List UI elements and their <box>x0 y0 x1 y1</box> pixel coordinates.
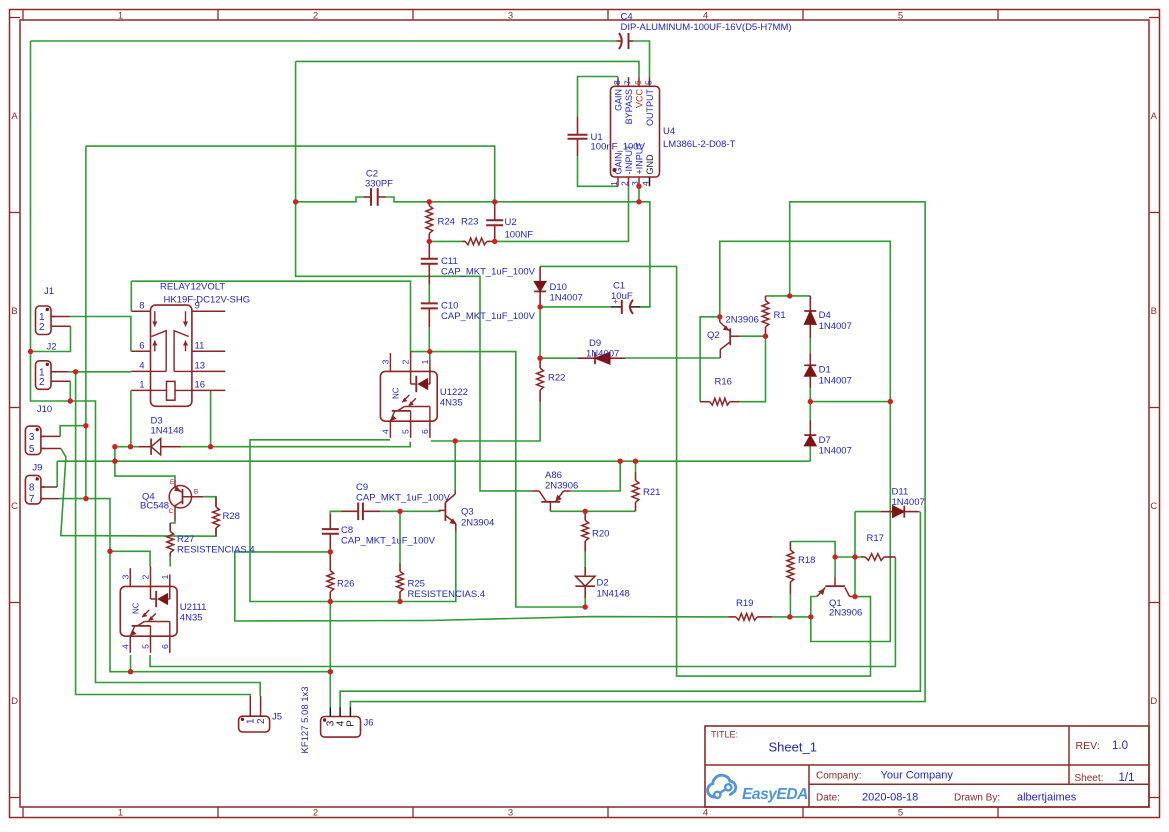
diode D10 1N4007 <box>539 266 541 281</box>
svg-text:J2: J2 <box>47 341 57 352</box>
svg-text:D4: D4 <box>819 310 831 321</box>
junction <box>28 349 33 354</box>
svg-text:8: 8 <box>29 483 35 494</box>
svg-text:1: 1 <box>420 359 430 364</box>
junction <box>208 444 213 449</box>
svg-text:R20: R20 <box>592 529 609 540</box>
wire D4 D1 column gap <box>809 296 811 311</box>
wire A86 base row <box>550 510 635 512</box>
svg-text:+INPUT: +INPUT <box>635 142 645 175</box>
transistor Q4 BC548 <box>169 486 191 508</box>
wire Q4 emitter feed <box>115 447 175 480</box>
wire U2111 pin4 stub <box>130 655 132 672</box>
svg-text:1: 1 <box>609 181 619 186</box>
wire J2 pin2 riser <box>69 381 71 401</box>
svg-text:1.0: 1.0 <box>1112 740 1128 752</box>
svg-text:4: 4 <box>641 181 651 186</box>
svg-text:D11: D11 <box>892 487 909 498</box>
diode D11 1N4007 <box>881 511 893 513</box>
junction <box>763 334 768 339</box>
junction <box>583 509 588 514</box>
junction <box>618 459 623 464</box>
svg-text:U2: U2 <box>505 217 517 228</box>
svg-text:16: 16 <box>195 380 206 391</box>
diode D1 1N4007 <box>809 354 811 366</box>
junction <box>128 444 133 449</box>
wire net to U4 pin6 VCC <box>296 61 639 77</box>
resistor R23 <box>462 240 465 242</box>
wire to U2111 pin2 <box>110 551 150 566</box>
svg-text:3: 3 <box>29 432 35 443</box>
svg-text:D: D <box>11 696 18 707</box>
wire Q2 emitter corner to R16 <box>700 317 720 402</box>
wire R17 row <box>835 556 861 558</box>
resistor R21 <box>635 472 637 481</box>
svg-text:DIP-ALUMINUM-100UF-16V(D5-H7MM: DIP-ALUMINUM-100UF-16V(D5-H7MM) <box>621 22 792 33</box>
svg-text:13: 13 <box>195 361 206 372</box>
svg-text:J5: J5 <box>272 712 282 723</box>
svg-text:3: 3 <box>120 574 130 579</box>
svg-text:6: 6 <box>633 80 643 85</box>
svg-text:J1: J1 <box>44 286 54 297</box>
svg-text:2: 2 <box>141 574 151 579</box>
wire VCC top rail left <box>31 40 617 42</box>
svg-text:2N3906: 2N3906 <box>726 315 759 326</box>
junction <box>328 599 333 604</box>
optocoupler U2111 4N35 <box>120 586 177 636</box>
resistor R25 <box>399 563 401 571</box>
svg-text:BYPASS: BYPASS <box>624 89 634 124</box>
junction <box>787 293 792 298</box>
optocoupler U1222 4N35 <box>380 371 437 421</box>
wire R24 top to U2 top <box>429 201 639 203</box>
wire R21 riser <box>635 461 637 472</box>
svg-text:GAIN: GAIN <box>614 89 624 111</box>
capacitor C8 <box>329 514 331 529</box>
junction <box>427 199 432 204</box>
svg-text:R27: R27 <box>177 534 194 545</box>
svg-text:2: 2 <box>39 322 45 333</box>
connector J10 <box>25 426 41 455</box>
svg-text:3: 3 <box>508 807 513 818</box>
svg-text:100NF: 100NF <box>505 230 534 241</box>
svg-text:D: D <box>1150 696 1157 707</box>
svg-text:albertjaimes: albertjaimes <box>1017 792 1077 804</box>
junction <box>832 554 837 559</box>
wire R22 bottom to U1222 pin6 row <box>431 402 540 441</box>
svg-text:5: 5 <box>898 10 903 21</box>
svg-text:R21: R21 <box>643 487 660 498</box>
svg-text:5: 5 <box>898 807 903 818</box>
svg-text:RESISTENCIAS.4: RESISTENCIAS.4 <box>177 545 255 556</box>
svg-text:RESISTENCIAS.4: RESISTENCIAS.4 <box>408 589 486 600</box>
wire J9 pin8 riser <box>56 461 58 487</box>
svg-text:C1: C1 <box>613 281 625 292</box>
wire D10 to D9 junction <box>539 307 541 358</box>
junction <box>328 549 333 554</box>
wire Q3 base row <box>331 510 342 512</box>
svg-text:C11: C11 <box>441 256 458 267</box>
svg-text:R25: R25 <box>408 579 425 590</box>
svg-text:4N35: 4N35 <box>180 612 203 623</box>
svg-text:E: E <box>170 479 175 486</box>
svg-text:A: A <box>11 111 18 122</box>
capacitor C9 <box>342 510 359 512</box>
svg-text:1: 1 <box>118 807 123 818</box>
svg-text:Your Company: Your Company <box>881 770 954 782</box>
svg-text:CAP_MKT_1uF_100V: CAP_MKT_1uF_100V <box>341 536 436 547</box>
svg-text:R16: R16 <box>715 377 732 388</box>
J2 pin stubs <box>51 371 68 373</box>
svg-text:6: 6 <box>139 341 144 352</box>
wire x86 vertical bus <box>85 146 87 499</box>
svg-text:GAIN: GAIN <box>614 152 624 174</box>
svg-text:CAP_MKT_1uF_100V: CAP_MKT_1uF_100V <box>441 311 536 322</box>
resistor R19 <box>729 616 737 618</box>
svg-text:3: 3 <box>380 359 390 364</box>
svg-text:4: 4 <box>139 361 144 372</box>
resistor R1 <box>765 296 767 301</box>
svg-text:REV:: REV: <box>1076 740 1100 752</box>
wire J9 pin7 down bus <box>110 551 131 671</box>
wire C9 left to C8 <box>330 511 341 514</box>
svg-text:4: 4 <box>380 429 390 434</box>
wire D3 right to relay pin16 <box>181 446 211 448</box>
svg-text:TITLE:: TITLE: <box>711 730 738 740</box>
capacitor C2 <box>364 196 372 198</box>
capacitor C1 <box>611 306 622 308</box>
svg-text:R24: R24 <box>438 217 455 228</box>
svg-text:1N4148: 1N4148 <box>597 589 630 600</box>
transistor Q1 2N3906 <box>825 585 845 587</box>
svg-text:2: 2 <box>313 10 318 21</box>
svg-text:C: C <box>169 508 174 515</box>
svg-text:D7: D7 <box>819 435 831 446</box>
wire D9 row left <box>540 357 578 359</box>
resistor R27 <box>169 523 171 531</box>
J1 pin stubs <box>51 316 70 318</box>
transistor A86 2N3906 <box>541 501 560 503</box>
connector J1 <box>36 306 52 335</box>
junction <box>112 459 117 464</box>
wire C10 bottom row to D2 <box>411 352 586 607</box>
diode D2 1N4148 <box>584 567 586 576</box>
svg-text:C8: C8 <box>341 525 353 536</box>
resistor R22 <box>539 358 541 368</box>
wire D9 to Q2 collector <box>625 357 720 359</box>
wire relay pin1 to D3 <box>130 390 132 446</box>
connector J2 <box>36 361 52 390</box>
wire D10 bottom to C1 left <box>540 306 611 308</box>
svg-text:HK19F-DC12V-SHG: HK19F-DC12V-SHG <box>164 295 251 306</box>
junction <box>107 549 112 554</box>
wire relay pin16 riser <box>210 390 212 446</box>
junction <box>583 604 588 609</box>
svg-text:RELAY12VOLT: RELAY12VOLT <box>160 282 225 293</box>
wire C11-C10 joint <box>428 285 430 304</box>
wire left long net J1.2 J2.2 J5.2 <box>31 41 261 696</box>
svg-text:4N35: 4N35 <box>440 397 463 408</box>
junction <box>328 669 333 674</box>
svg-text:1: 1 <box>118 10 123 21</box>
wire D4-D1 joint <box>809 338 811 354</box>
junction <box>68 398 73 403</box>
wire J2 pin1 to relay pin4 <box>68 371 131 373</box>
junction <box>537 304 542 309</box>
svg-text:5: 5 <box>644 80 654 85</box>
junction <box>83 496 88 501</box>
svg-text:GND: GND <box>645 154 655 175</box>
svg-text:1N4007: 1N4007 <box>550 293 583 304</box>
svg-text:C10: C10 <box>441 301 458 312</box>
wire U2111 pin5 to R17 right <box>150 557 895 667</box>
junction <box>636 199 641 204</box>
svg-text:3: 3 <box>508 10 513 21</box>
title block frame <box>705 726 1149 807</box>
wire long mid bus y461 <box>57 460 810 462</box>
svg-text:Drawn By:: Drawn By: <box>954 793 1000 804</box>
junction <box>888 399 893 404</box>
svg-text:R22: R22 <box>548 373 565 384</box>
wire U4 pin3 to C1 plus <box>639 202 650 307</box>
svg-text:B: B <box>11 306 17 317</box>
svg-text:9: 9 <box>195 301 200 312</box>
svg-text:1N4007: 1N4007 <box>586 349 619 360</box>
wire R25 top feed <box>399 511 401 563</box>
junction <box>397 599 402 604</box>
resistor R28 <box>215 497 217 507</box>
wire left vertical to A86 collector <box>296 61 532 491</box>
svg-text:NC: NC <box>391 387 400 399</box>
svg-text:-INPUT: -INPUT <box>624 144 634 174</box>
diode D7 1N4007 <box>809 420 811 435</box>
junction <box>453 438 458 443</box>
svg-text:J6: J6 <box>364 718 374 729</box>
resistor R17 <box>861 556 865 558</box>
wire Q4 base to R28 <box>203 497 216 507</box>
J9 pin stubs <box>41 486 57 488</box>
junction <box>852 554 857 559</box>
svg-text:2: 2 <box>256 718 267 724</box>
svg-text:J9: J9 <box>32 462 42 473</box>
svg-text:R26: R26 <box>337 579 354 590</box>
junction <box>427 349 432 354</box>
wire J1 pin1 to relay pin6 <box>70 317 131 352</box>
junction <box>427 239 432 244</box>
wire D3 anode row <box>115 446 138 448</box>
wire J2 pin1 to J5 pin1 <box>76 372 251 696</box>
svg-text:LM386L-2-D08-T: LM386L-2-D08-T <box>663 139 736 150</box>
wire C4 to U4 pin5 OUTPUT <box>633 41 650 77</box>
junction <box>73 369 78 374</box>
svg-text:1N4007: 1N4007 <box>819 321 852 332</box>
wire C8 bottom row <box>235 552 729 621</box>
junction <box>537 356 542 361</box>
svg-text:2020-08-18: 2020-08-18 <box>862 792 918 804</box>
svg-text:2N3906: 2N3906 <box>829 608 862 619</box>
junction <box>787 614 792 619</box>
svg-text:5: 5 <box>401 429 411 434</box>
wire Q3 collector riser <box>454 441 456 491</box>
wire R16 right riser <box>740 336 766 402</box>
junction <box>397 509 402 514</box>
wire D2 bottom stub <box>584 598 586 607</box>
svg-text:R17: R17 <box>867 533 884 544</box>
transistor Q3 2N3904 <box>444 502 446 521</box>
svg-text:11: 11 <box>195 341 205 352</box>
svg-text:Company:: Company: <box>816 771 862 782</box>
svg-text:U2111: U2111 <box>180 602 207 613</box>
svg-text:R18: R18 <box>798 555 815 566</box>
svg-text:D2: D2 <box>597 578 609 589</box>
diode D3 1N4148 <box>138 446 151 448</box>
svg-text:A86: A86 <box>545 470 562 481</box>
diode D4 1N4007 <box>809 296 811 311</box>
svg-text:1N4148: 1N4148 <box>151 426 184 437</box>
connector J6 <box>321 717 361 738</box>
junction <box>808 614 813 619</box>
svg-text:2N3904: 2N3904 <box>461 518 494 529</box>
svg-text:U1222: U1222 <box>440 387 468 398</box>
junction <box>717 314 722 319</box>
capacitor U1 <box>577 117 579 135</box>
wire J10 pin5 to R28 bottom <box>61 449 216 537</box>
svg-text:1: 1 <box>139 380 144 391</box>
junction <box>808 399 813 404</box>
wire C2 row right <box>386 197 430 202</box>
wire Q1 collector to C1 net <box>540 266 870 676</box>
wire U1 cap bottom to U4 pin1 <box>578 156 619 186</box>
wire Q4 collector to R27 <box>170 521 175 523</box>
junction <box>293 199 298 204</box>
svg-text:OUTPUT: OUTPUT <box>645 89 655 127</box>
svg-text:KF127 5.08 1x3: KF127 5.08 1x3 <box>300 686 311 753</box>
wire relay pin8 stub <box>130 281 132 311</box>
svg-text:CAP_MKT_1uF_100V: CAP_MKT_1uF_100V <box>356 493 451 504</box>
svg-text:Sheet_1: Sheet_1 <box>769 740 817 755</box>
svg-text:NC: NC <box>131 602 140 614</box>
svg-text:B: B <box>194 489 198 496</box>
wire R18 bottom stub <box>789 594 791 617</box>
svg-text:J10: J10 <box>37 404 52 415</box>
wire D11 right to J6 pin4 <box>340 512 920 708</box>
svg-text:A: A <box>1151 111 1158 122</box>
svg-text:P: P <box>346 720 357 727</box>
wire Q1 base stub <box>834 557 836 577</box>
svg-text:R23: R23 <box>461 217 478 228</box>
wire D3 row to U1222 pin5 <box>211 442 411 447</box>
wire C9 right to Q3 base <box>380 510 440 512</box>
svg-text:5: 5 <box>29 444 35 455</box>
svg-text:EasyEDA: EasyEDA <box>742 786 808 803</box>
junction <box>128 669 133 674</box>
svg-text:6: 6 <box>160 644 170 649</box>
wire R1 top row <box>766 295 811 297</box>
svg-text:1N4007: 1N4007 <box>892 497 925 508</box>
svg-text:B: B <box>1151 306 1157 317</box>
wire R19 right to Q1 collector <box>772 616 811 618</box>
wire R1 row to J6 pinP big loop <box>350 202 925 707</box>
wire R23 left to R24 bottom <box>429 240 462 242</box>
svg-text:5: 5 <box>141 644 151 649</box>
svg-text:6: 6 <box>420 429 430 434</box>
wire pin4 row to J6 pin3 <box>131 671 331 673</box>
wire J6 pin3 column <box>329 602 331 708</box>
diode D9 1N4007 <box>578 357 595 359</box>
svg-text:1/1: 1/1 <box>1119 772 1135 784</box>
capacitor C4 <box>617 40 623 42</box>
op-amp U4 LM386 body <box>611 86 660 177</box>
wire U1222 pin4 to R26 bottom row <box>250 440 456 602</box>
svg-text:10uF: 10uF <box>611 291 633 302</box>
wire x890 to Q1 collector <box>811 402 891 642</box>
svg-text:Date:: Date: <box>816 793 840 804</box>
svg-text:C4: C4 <box>621 12 633 23</box>
svg-text:7: 7 <box>623 80 633 85</box>
svg-text:Sheet:: Sheet: <box>1075 773 1104 784</box>
resistor R20 <box>584 511 586 520</box>
wire U4 pin2 to R23 row <box>495 186 629 241</box>
wire C1 right up <box>640 306 650 308</box>
svg-text:D10: D10 <box>550 282 567 293</box>
connector J5 <box>239 716 270 732</box>
wire y146 bus to U2 top <box>86 146 495 202</box>
junction <box>112 444 117 449</box>
junction <box>636 184 641 189</box>
wire Q2 base link <box>740 335 766 337</box>
wire J1 pin2 down <box>31 326 71 351</box>
wire U1 cap top to U4 pin8 <box>578 77 619 118</box>
wire D7 bottom corner <box>809 446 811 461</box>
wire Q2 emitter up and over to x890 <box>720 241 891 401</box>
svg-text:1: 1 <box>160 574 170 579</box>
svg-text:2: 2 <box>39 377 45 388</box>
wire relay top rail to U1222 pin2 <box>131 281 410 351</box>
resistor R26 <box>329 552 331 571</box>
wire R18 top loop <box>790 542 835 558</box>
wire Q1 emitter hook <box>811 597 817 617</box>
svg-text:2: 2 <box>401 359 411 364</box>
svg-text:D1: D1 <box>819 365 831 376</box>
svg-text:4: 4 <box>120 644 130 649</box>
svg-text:4: 4 <box>703 807 708 818</box>
wire C10 bottom joint <box>428 327 430 352</box>
wire J9 pin7 row <box>59 499 110 552</box>
junction <box>492 199 497 204</box>
svg-text:VCC: VCC <box>635 89 645 109</box>
svg-text:R1: R1 <box>774 310 786 321</box>
svg-text:1N4007: 1N4007 <box>819 446 852 457</box>
svg-text:C: C <box>1150 501 1157 512</box>
wire D1 bottom joint <box>809 388 811 402</box>
wire U1222 pin1 stub <box>429 352 431 360</box>
svg-text:1N4007: 1N4007 <box>819 376 852 387</box>
svg-text:2: 2 <box>620 181 630 186</box>
connector J9 <box>25 475 41 504</box>
resistor R16 <box>700 401 710 403</box>
resistor R18 <box>789 542 791 551</box>
capacitor U2 <box>494 202 496 221</box>
junction <box>633 459 638 464</box>
svg-text:2: 2 <box>313 807 318 818</box>
junction <box>83 423 88 428</box>
svg-text:8: 8 <box>612 80 622 85</box>
wire D11 left hook down <box>854 512 856 597</box>
wire R27 to U2111 pin1 <box>169 557 171 567</box>
svg-text:BC548: BC548 <box>140 501 169 512</box>
transistor Q2 2N3906 <box>729 328 731 345</box>
svg-text:Q3: Q3 <box>461 507 474 518</box>
